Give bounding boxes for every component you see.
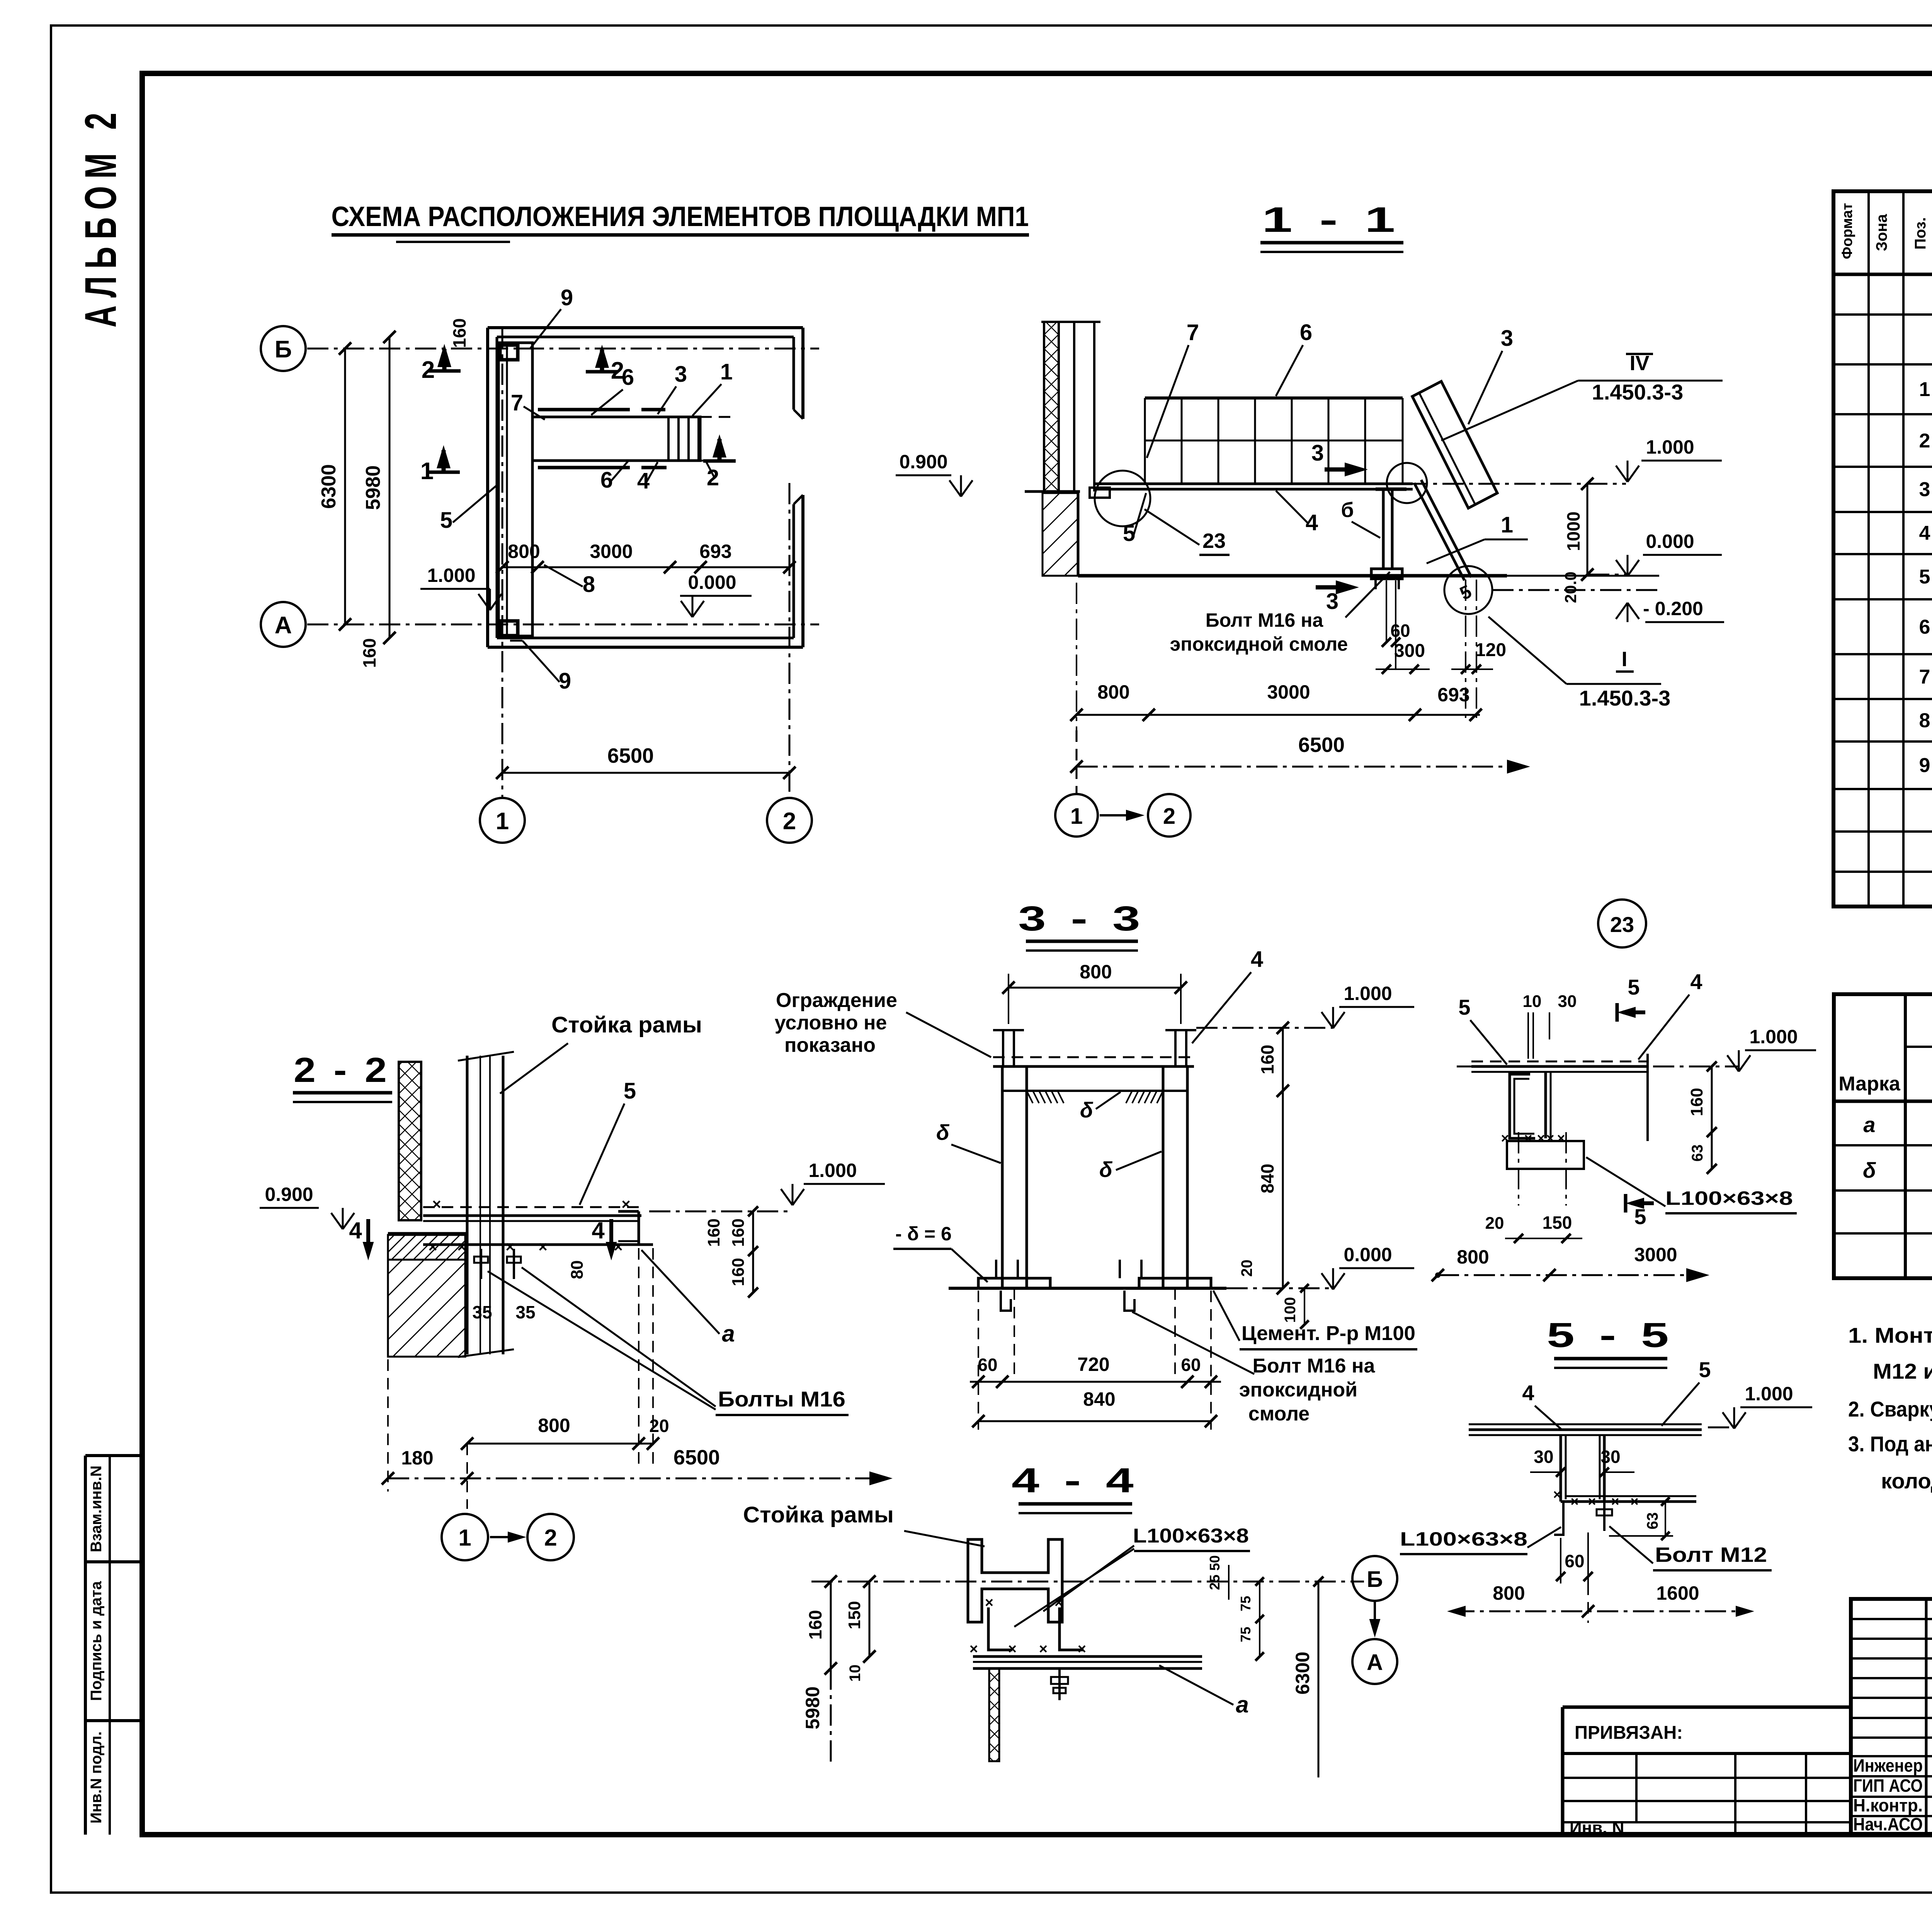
svg-text:показано: показано [784, 1034, 876, 1056]
svg-text:смоле: смоле [1248, 1403, 1310, 1425]
svg-text:1. Монтаж вести на болтах н: 1. Монтаж вести на болтах нормальной точ… [1848, 1323, 1932, 1347]
svg-text:×: × [1039, 1641, 1048, 1657]
svg-text:0.000: 0.000 [1646, 531, 1694, 552]
svg-text:×: × [538, 1238, 547, 1255]
svg-text:1.000: 1.000 [1646, 436, 1694, 458]
svg-text:2. Сварку вести электродами: 2. Сварку вести электродами типа Э42 по … [1848, 1397, 1932, 1421]
svg-text:180: 180 [401, 1447, 433, 1469]
svg-text:160: 160 [1687, 1088, 1706, 1116]
svg-text:4: 4 [1522, 1381, 1534, 1405]
svg-text:4: 4 [592, 1218, 605, 1243]
svg-text:×: × [1570, 1493, 1578, 1509]
svg-text:3 - 3: 3 - 3 [1018, 900, 1146, 938]
svg-text:5: 5 [1919, 566, 1930, 588]
svg-text:8: 8 [583, 572, 595, 597]
svg-text:×: × [985, 1595, 993, 1611]
svg-text:условно не: условно не [775, 1012, 887, 1034]
svg-text:Стойка рамы: Стойка рамы [743, 1502, 894, 1527]
svg-text:2: 2 [707, 465, 719, 490]
svg-text:4: 4 [1690, 969, 1702, 994]
svg-text:Марка: Марка [1838, 1073, 1901, 1095]
svg-text:160: 160 [805, 1610, 825, 1640]
svg-text:9: 9 [1919, 754, 1930, 777]
svg-text:800: 800 [508, 541, 540, 562]
svg-text:эпоксидной смоле: эпоксидной смоле [1170, 633, 1348, 655]
svg-text:840: 840 [1083, 1388, 1115, 1410]
svg-text:5980: 5980 [802, 1686, 823, 1729]
svg-text:колодцы Ф24 h = 100 мм: колодцы Ф24 h = 100 мм [1881, 1469, 1932, 1493]
svg-text:7: 7 [1187, 320, 1199, 345]
svg-text:Инв.N подл.: Инв.N подл. [88, 1731, 105, 1824]
svg-text:23: 23 [1610, 912, 1634, 937]
svg-text:3. Под анкерные болты высв: 3. Под анкерные болты высверлить в бетон… [1848, 1432, 1932, 1456]
svg-text:720: 720 [1077, 1354, 1109, 1375]
svg-text:5: 5 [1458, 995, 1470, 1019]
svg-text:10: 10 [847, 1665, 864, 1682]
svg-text:30: 30 [1534, 1447, 1553, 1467]
svg-text:2 - 2: 2 - 2 [294, 1051, 390, 1090]
svg-text:Инженер: Инженер [1853, 1755, 1923, 1776]
svg-text:Болты М16: Болты М16 [718, 1387, 845, 1411]
svg-text:160: 160 [1257, 1045, 1277, 1075]
svg-text:35: 35 [515, 1302, 535, 1322]
svg-text:5: 5 [1628, 975, 1639, 999]
svg-text:×: × [621, 1196, 630, 1213]
svg-text:50: 50 [1207, 1555, 1223, 1571]
svg-text:4: 4 [1919, 522, 1930, 544]
svg-text:60: 60 [1565, 1551, 1584, 1571]
svg-text:800: 800 [1097, 681, 1129, 703]
svg-text:×: × [1588, 1493, 1596, 1509]
svg-text:×: × [1553, 1486, 1561, 1502]
svg-text:1: 1 [720, 359, 733, 384]
svg-text:10: 10 [1523, 992, 1542, 1011]
svg-text:Б: Б [275, 336, 292, 363]
svg-text:Болт М12: Болт М12 [1655, 1543, 1767, 1566]
svg-text:1000: 1000 [1563, 512, 1583, 551]
svg-text:3: 3 [1919, 478, 1930, 501]
svg-text:3: 3 [675, 362, 687, 387]
svg-text:840: 840 [1257, 1164, 1277, 1194]
svg-text:δ: δ [1863, 1158, 1876, 1182]
svg-text:×: × [1537, 1130, 1545, 1146]
svg-text:150: 150 [845, 1601, 864, 1629]
svg-text:АЛЬБОМ 2: АЛЬБОМ 2 [76, 105, 126, 328]
svg-text:63: 63 [1644, 1512, 1661, 1530]
svg-text:0.900: 0.900 [265, 1184, 313, 1205]
svg-text:2: 2 [1919, 430, 1930, 452]
svg-text:б: б [1341, 498, 1354, 522]
svg-text:Болт М16 на: Болт М16 на [1253, 1355, 1376, 1377]
svg-text:35: 35 [472, 1302, 492, 1322]
svg-text:75: 75 [1238, 1627, 1253, 1642]
svg-text:6: 6 [1919, 616, 1930, 638]
svg-text:2: 2 [783, 808, 796, 835]
svg-text:×: × [1630, 1493, 1638, 1509]
svg-text:Стойка рамы: Стойка рамы [551, 1012, 702, 1037]
svg-text:5: 5 [1634, 1204, 1646, 1229]
svg-text:160: 160 [729, 1258, 748, 1286]
svg-text:Н.контр.: Н.контр. [1853, 1795, 1923, 1815]
svg-text:800: 800 [538, 1415, 570, 1436]
svg-text:20: 20 [1238, 1260, 1255, 1277]
svg-text:Формат: Формат [1839, 203, 1855, 259]
svg-text:×: × [1501, 1130, 1509, 1146]
svg-text:3: 3 [1501, 326, 1513, 351]
svg-text:Взам.инв.N: Взам.инв.N [88, 1466, 105, 1553]
svg-text:0.000: 0.000 [1344, 1244, 1392, 1265]
svg-text:1: 1 [1070, 804, 1083, 829]
svg-text:М12 и на электросварке.: М12 и на электросварке. [1873, 1359, 1932, 1383]
svg-text:А: А [275, 612, 292, 639]
svg-text:Подпись и дата: Подпись и дата [88, 1581, 105, 1701]
svg-text:×: × [1008, 1641, 1017, 1657]
svg-text:×: × [1524, 1130, 1532, 1146]
svg-text:a: a [1236, 1692, 1248, 1718]
svg-text:a: a [1863, 1112, 1875, 1137]
svg-text:4: 4 [1251, 947, 1263, 972]
svg-text:6300: 6300 [318, 464, 340, 509]
svg-text:1.000: 1.000 [1749, 1026, 1798, 1048]
svg-text:150: 150 [1543, 1213, 1572, 1233]
svg-text:×: × [1054, 1595, 1063, 1611]
svg-text:L100×63×8: L100×63×8 [1400, 1528, 1527, 1550]
svg-text:6: 6 [622, 365, 634, 390]
svg-text:9: 9 [561, 285, 573, 310]
svg-text:×: × [1557, 1130, 1565, 1146]
svg-text:Инв. N: Инв. N [1570, 1818, 1624, 1837]
svg-text:100: 100 [1282, 1297, 1299, 1323]
svg-text:1.000: 1.000 [427, 565, 475, 586]
svg-text:×: × [1611, 1493, 1619, 1509]
svg-text:6300: 6300 [1292, 1651, 1313, 1694]
svg-text:эпоксидной: эпоксидной [1239, 1379, 1357, 1401]
svg-text:60: 60 [978, 1355, 997, 1375]
svg-text:800: 800 [1457, 1246, 1489, 1268]
svg-text:1 - 1: 1 - 1 [1262, 200, 1401, 240]
svg-text:693: 693 [699, 541, 731, 562]
svg-text:7: 7 [511, 390, 523, 415]
svg-text:2: 2 [544, 1525, 557, 1551]
svg-text:160: 160 [729, 1218, 748, 1247]
svg-text:- 0.200: - 0.200 [1643, 598, 1703, 619]
svg-text:Ограждение: Ограждение [776, 989, 897, 1012]
svg-text:I: I [1621, 648, 1627, 671]
svg-text:δ: δ [1080, 1098, 1094, 1122]
svg-text:СХЕМА РАСПОЛОЖЕНИЯ ЭЛЕМЕНТОВ П: СХЕМА РАСПОЛОЖЕНИЯ ЭЛЕМЕНТОВ ПЛОЩАДКИ МП… [332, 201, 1029, 232]
svg-text:3000: 3000 [1634, 1244, 1677, 1265]
svg-text:1.450.3-3: 1.450.3-3 [1579, 686, 1671, 710]
svg-text:ГИП АСО: ГИП АСО [1853, 1776, 1923, 1796]
svg-text:Нач.АСО: Нач.АСО [1853, 1814, 1923, 1834]
svg-text:1: 1 [1919, 378, 1930, 401]
svg-text:2: 2 [1163, 804, 1175, 829]
svg-text:3000: 3000 [1267, 681, 1310, 703]
svg-text:×: × [1078, 1641, 1086, 1657]
svg-text:×: × [457, 1238, 466, 1255]
svg-text:160: 160 [449, 318, 469, 348]
svg-text:Болт М16 на: Болт М16 на [1206, 609, 1324, 631]
svg-text:300: 300 [1394, 641, 1425, 661]
svg-text:δ: δ [936, 1120, 950, 1145]
svg-text:3: 3 [1311, 440, 1324, 466]
svg-text:8: 8 [1919, 709, 1930, 732]
svg-text:63: 63 [1689, 1145, 1706, 1162]
svg-text:0.000: 0.000 [688, 571, 736, 593]
svg-text:693: 693 [1437, 684, 1469, 706]
svg-text:80: 80 [568, 1260, 587, 1279]
svg-text:0.900: 0.900 [899, 451, 947, 473]
svg-text:×: × [432, 1196, 441, 1213]
svg-text:Поз.: Поз. [1912, 217, 1929, 250]
svg-text:120: 120 [1475, 640, 1506, 660]
svg-text:3000: 3000 [590, 541, 633, 562]
svg-text:6500: 6500 [607, 744, 654, 767]
svg-text:- δ = 6: - δ = 6 [895, 1223, 952, 1245]
svg-text:Цемент. Р-р М100: Цемент. Р-р М100 [1242, 1322, 1415, 1345]
svg-text:20.0: 20.0 [1561, 571, 1580, 603]
svg-text:60: 60 [1181, 1355, 1201, 1375]
svg-text:1: 1 [1501, 512, 1513, 537]
svg-text:25: 25 [1207, 1575, 1223, 1590]
svg-text:1.450.3-3: 1.450.3-3 [1592, 380, 1684, 404]
svg-text:a: a [722, 1321, 735, 1347]
svg-text:1.000: 1.000 [1344, 983, 1392, 1004]
svg-text:Б: Б [1367, 1567, 1383, 1592]
svg-text:6500: 6500 [1298, 733, 1345, 757]
svg-text:5980: 5980 [362, 465, 384, 510]
svg-text:6: 6 [1300, 320, 1312, 345]
svg-text:L100×63×8: L100×63×8 [1133, 1525, 1249, 1547]
svg-text:20: 20 [1485, 1214, 1504, 1233]
svg-text:Зона: Зона [1873, 214, 1890, 251]
svg-text:1: 1 [496, 808, 509, 835]
svg-text:×: × [969, 1641, 978, 1657]
svg-text:5 - 5: 5 - 5 [1547, 1316, 1674, 1355]
svg-text:160: 160 [704, 1218, 723, 1247]
svg-text:1: 1 [458, 1525, 471, 1551]
svg-text:1600: 1600 [1656, 1582, 1699, 1604]
svg-text:L100×63×8: L100×63×8 [1665, 1187, 1793, 1209]
svg-text:30: 30 [1600, 1447, 1620, 1467]
svg-text:5: 5 [440, 508, 452, 533]
svg-text:800: 800 [1080, 961, 1112, 983]
svg-text:δ: δ [1099, 1157, 1113, 1182]
svg-text:7: 7 [1919, 666, 1930, 688]
svg-text:5: 5 [624, 1078, 636, 1104]
svg-text:6500: 6500 [673, 1446, 720, 1469]
svg-text:75: 75 [1238, 1596, 1253, 1611]
svg-text:ПРИВЯЗАН:: ПРИВЯЗАН: [1575, 1723, 1683, 1743]
svg-text:30: 30 [1558, 992, 1577, 1011]
svg-text:23: 23 [1202, 529, 1226, 553]
svg-text:×: × [1546, 1130, 1554, 1146]
svg-text:5: 5 [1699, 1357, 1711, 1382]
svg-text:4 - 4: 4 - 4 [1012, 1461, 1139, 1500]
svg-text:9: 9 [559, 668, 571, 694]
svg-text:×: × [428, 1238, 437, 1255]
svg-text:4: 4 [349, 1218, 362, 1243]
svg-text:1.000: 1.000 [1745, 1383, 1793, 1405]
svg-text:А: А [1367, 1650, 1383, 1675]
svg-text:160: 160 [359, 638, 379, 668]
svg-text:1.000: 1.000 [808, 1160, 857, 1181]
svg-text:800: 800 [1493, 1582, 1525, 1604]
